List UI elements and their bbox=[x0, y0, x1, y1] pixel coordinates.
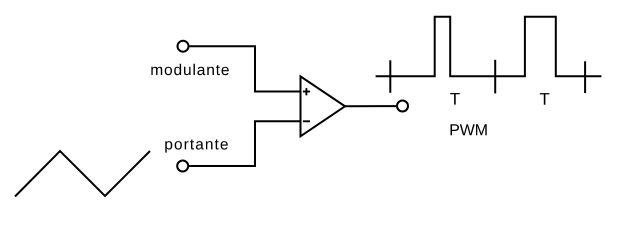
terminal modulante bbox=[178, 41, 189, 52]
axis tick 3 bbox=[584, 61, 586, 93]
carrier triangle waveform bbox=[15, 151, 150, 197]
label portante bbox=[165, 139, 228, 152]
axis tick 2 bbox=[494, 60, 496, 94]
plus symbol (+ input) bbox=[303, 88, 310, 95]
label T period 2 bbox=[540, 93, 550, 105]
label T period 1 bbox=[450, 93, 460, 105]
op-amp comparator U1 bbox=[301, 76, 346, 136]
output wire bbox=[345, 105, 397, 107]
label PWM bbox=[451, 124, 487, 135]
PWM pulse waveform bbox=[376, 17, 602, 76]
wire portante to - input bbox=[189, 121, 300, 166]
terminal portante bbox=[177, 161, 188, 172]
axis tick 1 bbox=[389, 60, 391, 93]
minus symbol (- input) bbox=[303, 120, 310, 122]
terminal output bbox=[397, 101, 408, 112]
label modulante bbox=[151, 64, 229, 75]
wire modulante to + input bbox=[189, 46, 300, 91]
